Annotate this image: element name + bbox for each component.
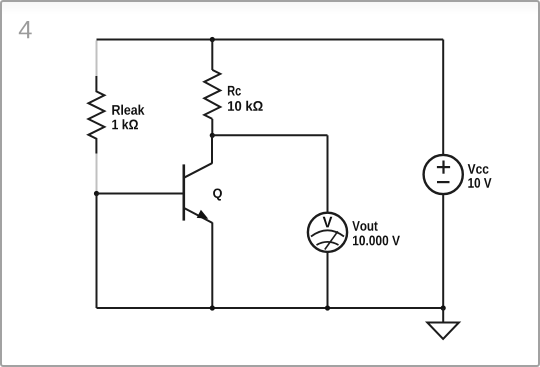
label: Rc value 10 kOhm <box>228 101 263 111</box>
wire: voltmeter bottom lead down to bottom rail <box>327 252 329 308</box>
junction: base node on left branch <box>94 191 99 196</box>
wire: gray segment from Rleak bottom lead to base node <box>96 154 98 193</box>
wire: ground stem <box>442 308 444 323</box>
junction: voltmeter / bottom rail <box>325 305 330 310</box>
wire: gray segment from top rail down to Rleak top lead <box>96 41 98 77</box>
label: transistor designator Q <box>213 189 222 201</box>
label: voltmeter name Vout <box>352 221 377 231</box>
wire: voltmeter branch vertical down to meter top <box>327 135 329 213</box>
label: Rleak name <box>112 105 144 115</box>
junction: top rail / Rc top <box>210 37 215 42</box>
resistor Rc <box>204 70 220 119</box>
label: source value 10 V <box>468 178 491 188</box>
voltmeter Vout (meter symbol) <box>308 213 347 252</box>
junction: ground node on bottom rail <box>441 305 446 310</box>
label: Rc name <box>228 86 241 96</box>
label: source name Vcc <box>468 164 489 174</box>
wire: right branch from top rail down to Vcc source top <box>442 40 444 156</box>
wire: left branch from base node down to bottom rail <box>96 194 98 309</box>
wire: bottom rail from left branch to ground node <box>97 307 444 309</box>
wire: base node to transistor base <box>97 193 184 195</box>
wire: top rail down to Rc top lead <box>211 40 213 71</box>
wire: emitter vertical down to bottom rail <box>211 223 213 309</box>
figure number 4 <box>19 21 32 38</box>
junction: collector node (Rc bottom / collector / voltmeter tap) <box>210 133 215 138</box>
junction: emitter / bottom rail <box>210 305 215 310</box>
wire: top rail from Rleak top-left corner to Vcc branch <box>97 39 444 41</box>
wire: Vcc source bottom down to ground node <box>442 194 444 308</box>
wire: collector vertical up to collector node <box>211 135 213 163</box>
ground symbol <box>427 323 459 339</box>
label: Rleak value 1 kOhm <box>112 119 138 129</box>
label: voltmeter reading 10.000 V <box>353 236 400 246</box>
transistor Q (NPN) <box>184 163 213 223</box>
resistor Rleak <box>88 76 104 154</box>
wire: Rc bottom lead down to collector node <box>211 119 213 135</box>
wire: collector node to voltmeter branch (horizontal) <box>212 134 327 136</box>
voltage source Vcc <box>424 155 463 194</box>
